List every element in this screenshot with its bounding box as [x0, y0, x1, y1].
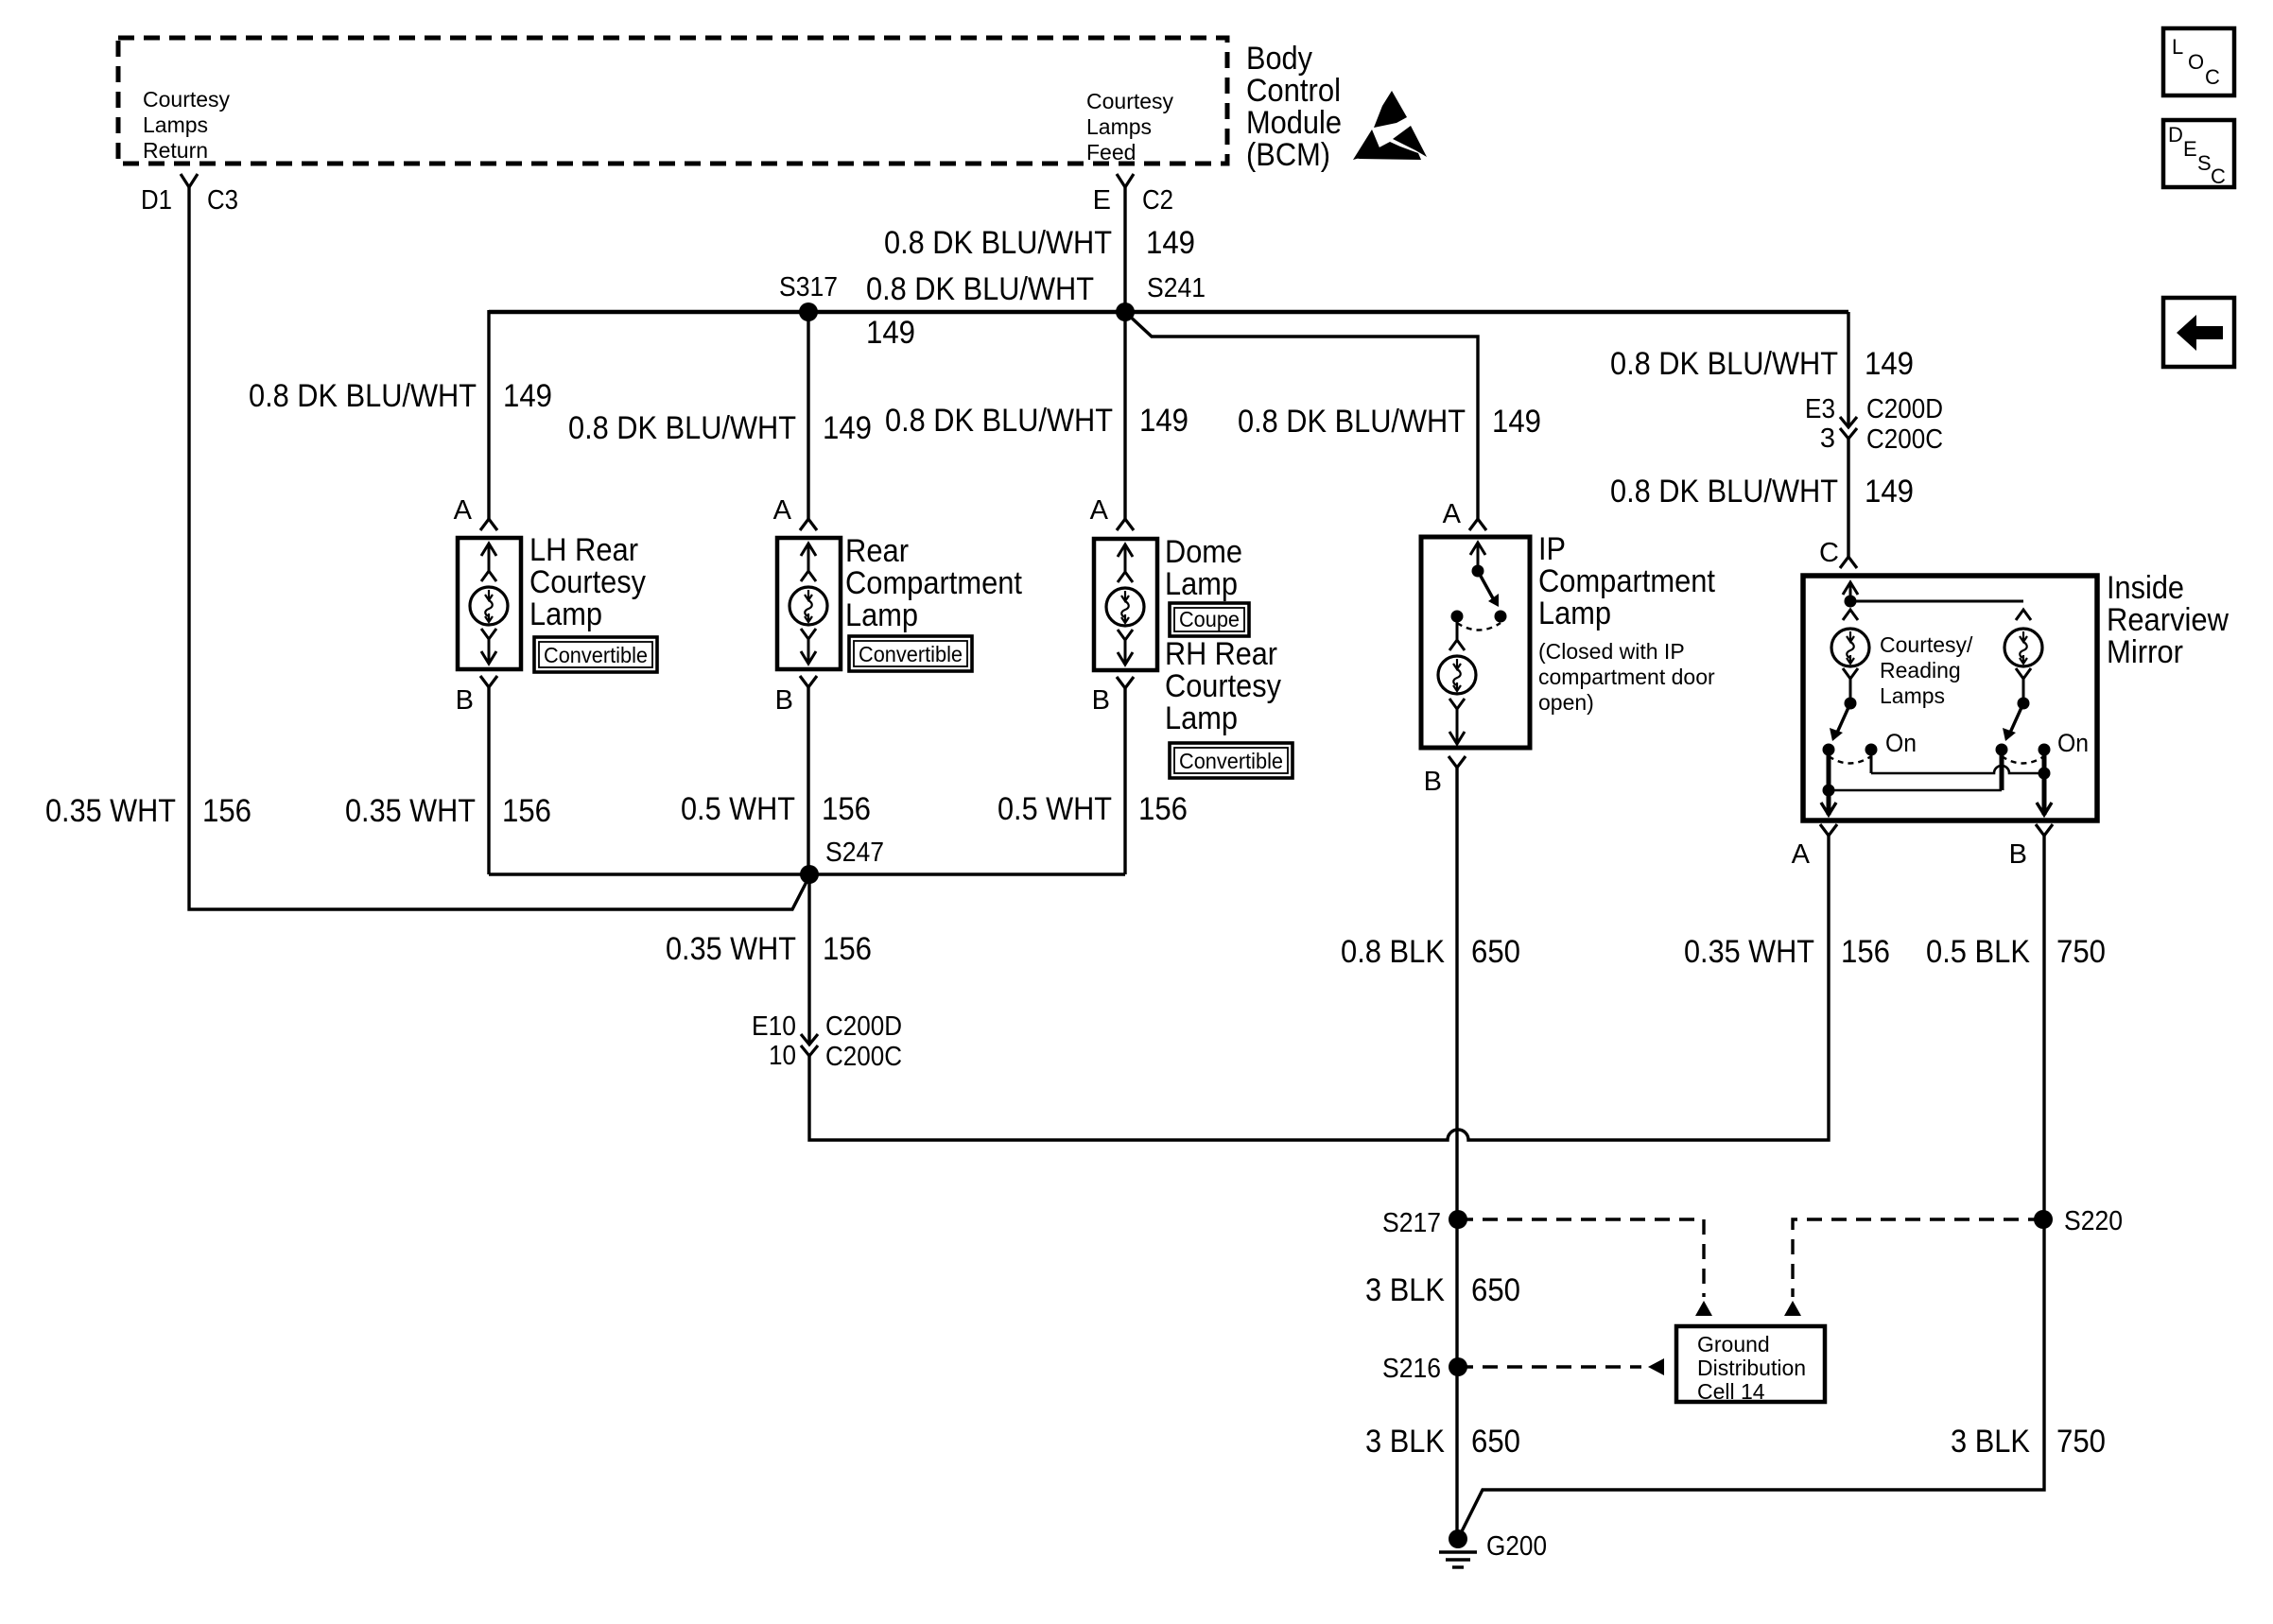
svg-text:Rearview: Rearview: [2107, 602, 2229, 638]
svg-text:D: D: [2168, 123, 2183, 147]
IP lamp bulb branch: [1456, 616, 1459, 640]
dashed reference wire from S220: [1793, 1219, 2043, 1297]
wire: bus drop to rear compartment lamp: [807, 312, 809, 519]
terminal A chevron (mirror): [1820, 824, 1837, 836]
mirror right pole drop: [2000, 750, 2004, 790]
svg-text:On: On: [1885, 729, 1917, 757]
svg-text:Body: Body: [1246, 41, 1312, 77]
svg-text:149: 149: [1146, 225, 1195, 261]
svg-text:C2: C2: [1142, 185, 1173, 216]
svg-text:Lamp: Lamp: [1165, 566, 1238, 602]
svg-text:Control: Control: [1246, 73, 1341, 109]
svg-text:Inside: Inside: [2107, 570, 2184, 606]
variant tag Convertible (rear compartment lamp): [849, 636, 972, 671]
svg-text:Distribution: Distribution: [1697, 1356, 1806, 1380]
svg-text:C: C: [2211, 164, 2226, 188]
svg-text:(BCM): (BCM): [1246, 137, 1330, 173]
svg-text:C: C: [2205, 65, 2220, 89]
svg-text:Lamps: Lamps: [1880, 683, 1945, 708]
svg-text:Lamps: Lamps: [1086, 114, 1152, 139]
wire: BCM D1 return wire down-left side: [189, 187, 809, 909]
svg-text:0.8 BLK: 0.8 BLK: [1341, 934, 1445, 970]
svg-text:Courtesy/: Courtesy/: [1880, 632, 1973, 657]
svg-text:Coupe: Coupe: [1179, 607, 1240, 631]
svg-text:149: 149: [1492, 404, 1541, 440]
svg-text:0.8 DK BLU/WHT: 0.8 DK BLU/WHT: [568, 410, 796, 446]
svg-text:A: A: [1090, 495, 1109, 526]
svg-text:0.35 WHT: 0.35 WHT: [666, 931, 796, 967]
wire: C200C to mirror A ground run: [809, 836, 1829, 1140]
variant tag Coupe (dome lamp): [1170, 603, 1249, 636]
svg-text:0.8 DK BLU/WHT: 0.8 DK BLU/WHT: [1238, 404, 1466, 440]
svg-text:B: B: [456, 685, 474, 716]
svg-text:0.8 DK BLU/WHT: 0.8 DK BLU/WHT: [249, 378, 477, 414]
mirror crossover wire On-left to B: [1871, 766, 2044, 773]
terminal C chevron: [1840, 557, 1857, 568]
reference arrowhead (S220): [1784, 1301, 1801, 1316]
svg-text:B: B: [1092, 685, 1110, 716]
svg-text:S220: S220: [2064, 1206, 2123, 1236]
LOC reference box: [2163, 28, 2234, 95]
wire: return bus: [489, 872, 1125, 876]
IP lamp door switch: [1451, 565, 1507, 631]
mirror B column: [2042, 750, 2047, 815]
svg-text:B: B: [775, 685, 793, 716]
svg-text:C200C: C200C: [1866, 424, 1943, 455]
svg-text:149: 149: [823, 410, 872, 446]
svg-text:0.5 BLK: 0.5 BLK: [1926, 934, 2030, 970]
svg-text:S: S: [2197, 151, 2212, 175]
svg-text:Rear: Rear: [845, 533, 909, 569]
mirror internal feed wire to right bulb: [1850, 600, 2023, 603]
svg-text:0.5 WHT: 0.5 WHT: [681, 791, 795, 827]
svg-text:Lamp: Lamp: [1165, 700, 1238, 736]
splice S247: [800, 865, 819, 884]
terminal E/C2 chevron: [1117, 174, 1134, 187]
svg-text:LH Rear: LH Rear: [529, 532, 638, 568]
svg-text:Reading: Reading: [1880, 658, 1961, 682]
svg-text:156: 156: [1841, 934, 1890, 970]
rear compartment lamp: [777, 538, 841, 669]
svg-text:C3: C3: [207, 185, 238, 216]
IP compartment lamp box: [1421, 537, 1530, 748]
connector E10 C200D / 10 C200C: [801, 1034, 818, 1045]
svg-text:Convertible: Convertible: [544, 643, 648, 667]
svg-text:B: B: [1424, 767, 1442, 797]
wire: C200C to mirror terminal C: [1847, 439, 1849, 557]
terminal A chevron (LH rear courtesy lamp): [480, 519, 497, 530]
svg-text:156: 156: [1138, 791, 1188, 827]
variant tag Convertible (RH rear lamp): [1170, 743, 1293, 778]
svg-text:O: O: [2188, 50, 2204, 74]
wire: LH rear lamp B down: [487, 687, 490, 874]
svg-text:Ground: Ground: [1697, 1332, 1770, 1356]
mirror left switch: [1823, 698, 1878, 764]
svg-text:Return: Return: [143, 138, 208, 163]
mirror left On contact drop: [1870, 750, 1873, 773]
svg-text:L: L: [2172, 35, 2183, 59]
svg-text:156: 156: [823, 931, 872, 967]
svg-text:0.8 DK BLU/WHT: 0.8 DK BLU/WHT: [866, 271, 1094, 307]
svg-text:Courtesy: Courtesy: [1165, 668, 1281, 704]
svg-text:C200D: C200D: [825, 1011, 902, 1042]
svg-text:Courtesy: Courtesy: [529, 564, 646, 600]
svg-text:RH Rear: RH Rear: [1165, 636, 1277, 672]
svg-text:0.35 WHT: 0.35 WHT: [1684, 934, 1814, 970]
wire: main feed bus S317-S241-right: [489, 310, 1848, 314]
svg-text:S247: S247: [825, 838, 884, 868]
terminal A chevron (dome lamp): [1117, 519, 1134, 530]
svg-text:Compartment: Compartment: [1538, 563, 1715, 599]
svg-text:A: A: [454, 495, 473, 526]
wire: S241 jog down to IP compartment lamp: [1125, 312, 1478, 519]
svg-text:Lamp: Lamp: [1538, 596, 1611, 631]
svg-text:compartment door: compartment door: [1538, 665, 1715, 689]
svg-text:On: On: [2057, 729, 2089, 757]
svg-text:Module: Module: [1246, 105, 1342, 141]
wire: bus drop to dome lamp: [1123, 310, 1126, 519]
wire: IP lamp B down to G200: [1455, 768, 1458, 1539]
splice S216: [1449, 1357, 1467, 1376]
svg-text:Courtesy: Courtesy: [143, 87, 231, 112]
svg-text:0.5 WHT: 0.5 WHT: [998, 791, 1112, 827]
wire: bus drop to LH rear courtesy lamp: [487, 310, 490, 519]
svg-text:Courtesy: Courtesy: [1086, 89, 1174, 113]
svg-text:Compartment: Compartment: [845, 565, 1022, 601]
connector E3 C200D / 3 C200C: [1840, 417, 1857, 427]
svg-text:149: 149: [1139, 403, 1189, 439]
svg-text:C200C: C200C: [825, 1042, 902, 1072]
mirror left bulb branch: [1843, 610, 1858, 620]
wire: mirror B down to G200: [1458, 836, 2044, 1539]
svg-text:D1: D1: [141, 185, 172, 216]
svg-text:IP: IP: [1538, 531, 1566, 567]
svg-text:149: 149: [1865, 346, 1914, 382]
ground distribution cell reference box: [1676, 1326, 1825, 1402]
dome lamp / RH rear courtesy lamp: [1094, 539, 1157, 670]
mirror crossover wire right-pole to A: [1829, 789, 2002, 792]
svg-text:A: A: [773, 495, 792, 526]
svg-text:650: 650: [1471, 1272, 1520, 1308]
svg-text:156: 156: [202, 793, 252, 829]
svg-text:Convertible: Convertible: [1179, 749, 1283, 773]
svg-text:0.35 WHT: 0.35 WHT: [45, 793, 176, 829]
svg-text:149: 149: [1865, 474, 1914, 510]
terminal A chevron (IP compartment lamp): [1469, 519, 1486, 530]
svg-text:0.8 DK BLU/WHT: 0.8 DK BLU/WHT: [1610, 474, 1838, 510]
svg-text:S217: S217: [1382, 1208, 1441, 1238]
reference arrowhead (S217): [1695, 1301, 1712, 1316]
ESD sensitivity symbol: [1353, 91, 1427, 160]
svg-text:3: 3: [1820, 423, 1835, 454]
svg-text:3 BLK: 3 BLK: [1365, 1272, 1445, 1308]
svg-text:149: 149: [503, 378, 552, 414]
svg-text:C: C: [1819, 538, 1839, 568]
wire: S247 down to C200 connector: [807, 874, 810, 1045]
terminal B chevron (LH rear courtesy lamp): [480, 676, 497, 687]
svg-text:0.35 WHT: 0.35 WHT: [345, 793, 476, 829]
svg-text:156: 156: [502, 793, 551, 829]
svg-text:650: 650: [1471, 934, 1520, 970]
splice S317: [799, 302, 818, 321]
svg-text:A: A: [1792, 839, 1811, 870]
svg-text:0.8 DK BLU/WHT: 0.8 DK BLU/WHT: [885, 403, 1113, 439]
terminal B chevron (rear compartment lamp): [800, 676, 817, 687]
body control module (BCM) dashed box: [118, 38, 1227, 164]
svg-text:149: 149: [866, 315, 915, 351]
terminal A chevron (rear compartment lamp): [800, 519, 817, 530]
terminal D1/C3 chevron: [181, 174, 198, 187]
wire: BCM E feed wire down to S241: [1123, 187, 1126, 310]
left arrow icon box: [2163, 298, 2234, 367]
svg-text:3 BLK: 3 BLK: [1951, 1424, 2030, 1460]
dashed reference wire from S216: [1458, 1365, 1641, 1368]
svg-text:E: E: [2183, 137, 2197, 161]
svg-text:Lamp: Lamp: [529, 596, 602, 632]
DESC reference box: [2163, 120, 2234, 188]
svg-text:C200D: C200D: [1866, 394, 1943, 424]
reference arrowhead (S216): [1648, 1358, 1664, 1375]
terminal B chevron (dome lamp): [1117, 677, 1134, 688]
mirror right switch: [1996, 698, 2051, 764]
terminal B chevron (IP compartment lamp): [1449, 756, 1466, 768]
ground G200 node: [1449, 1529, 1467, 1548]
svg-text:Lamps: Lamps: [143, 112, 208, 137]
wire: rear compartment lamp B down: [807, 687, 809, 874]
svg-text:S216: S216: [1382, 1354, 1441, 1384]
svg-text:S317: S317: [779, 272, 838, 302]
wire: right branch down to E3 connector: [1847, 312, 1849, 427]
svg-text:3 BLK: 3 BLK: [1365, 1424, 1445, 1460]
inside rearview mirror box: [1803, 576, 2097, 821]
ground symbol: [1439, 1552, 1477, 1567]
svg-text:Cell 14: Cell 14: [1697, 1379, 1765, 1404]
svg-text:(Closed with IP: (Closed with IP: [1538, 639, 1685, 664]
svg-text:A: A: [1443, 499, 1462, 529]
svg-text:Feed: Feed: [1086, 140, 1136, 164]
svg-text:Dome: Dome: [1165, 534, 1242, 570]
mirror feed node: [1845, 596, 1857, 608]
mirror internal feed arrow: [1849, 582, 1852, 601]
IP lamp internal feed arrow: [1477, 543, 1480, 571]
svg-text:G200: G200: [1486, 1531, 1547, 1562]
svg-text:E: E: [1093, 185, 1111, 216]
splice S220: [2034, 1210, 2053, 1229]
svg-text:0.8 DK BLU/WHT: 0.8 DK BLU/WHT: [884, 225, 1112, 261]
LH rear courtesy lamp: [458, 538, 521, 669]
dashed reference wire from S217: [1458, 1219, 1704, 1297]
mirror left pole wire to A exit: [1827, 750, 1831, 815]
svg-text:10: 10: [769, 1041, 796, 1071]
splice S217: [1449, 1210, 1467, 1229]
svg-text:750: 750: [2056, 1424, 2106, 1460]
svg-text:Convertible: Convertible: [859, 642, 963, 666]
svg-text:B: B: [2009, 839, 2027, 870]
svg-text:0.8 DK BLU/WHT: 0.8 DK BLU/WHT: [1610, 346, 1838, 382]
splice S241: [1116, 302, 1135, 321]
svg-text:E10: E10: [752, 1011, 796, 1042]
svg-text:open): open): [1538, 690, 1594, 715]
mirror right bulb branch: [2016, 610, 2031, 620]
svg-text:S241: S241: [1147, 273, 1206, 303]
variant tag Convertible (LH rear lamp): [534, 637, 657, 672]
svg-text:Lamp: Lamp: [845, 597, 918, 633]
svg-text:E3: E3: [1805, 394, 1835, 424]
terminal B chevron (mirror): [2036, 824, 2053, 836]
svg-text:750: 750: [2056, 934, 2106, 970]
svg-text:Mirror: Mirror: [2107, 634, 2183, 670]
svg-text:650: 650: [1471, 1424, 1520, 1460]
svg-text:156: 156: [822, 791, 871, 827]
wire: dome lamp B down: [1123, 688, 1126, 874]
